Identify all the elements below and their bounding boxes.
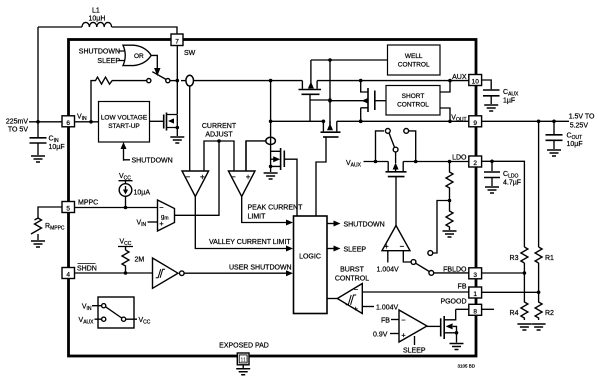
chip border bbox=[69, 40, 477, 357]
svg-text:+: + bbox=[159, 219, 164, 228]
svg-text:3: 3 bbox=[473, 272, 477, 279]
ground M0 bbox=[170, 137, 184, 143]
svg-text:3105 BD: 3105 BD bbox=[457, 364, 475, 369]
current sensor B bbox=[266, 121, 276, 166]
svg-text:10µA: 10µA bbox=[134, 190, 151, 197]
svg-text:MPPC: MPPC bbox=[78, 200, 98, 207]
svg-text:FB: FB bbox=[381, 318, 390, 325]
svg-text:6: 6 bbox=[66, 120, 70, 127]
svg-text:4: 4 bbox=[66, 272, 70, 279]
resistor R4 bbox=[510, 273, 528, 320]
node SHUTDOWN out bbox=[327, 221, 385, 229]
ground M3 bbox=[264, 173, 278, 179]
svg-text:10: 10 bbox=[472, 79, 480, 86]
capacitor CLDO bbox=[482, 160, 521, 187]
svg-text:10µF: 10µF bbox=[49, 144, 65, 151]
op-amp gm bbox=[158, 200, 175, 231]
svg-text:WELL: WELL bbox=[405, 53, 423, 60]
resistor R2 bbox=[535, 292, 554, 320]
wire C2 out PEAK CURRENT LIMIT bbox=[242, 197, 303, 226]
pin 6 VIN bbox=[62, 114, 87, 128]
svg-text:2M: 2M bbox=[135, 257, 145, 264]
wire PGOOD bbox=[456, 308, 469, 310]
svg-text:10µH: 10µH bbox=[89, 16, 106, 23]
comparator burst bbox=[335, 267, 369, 314]
resistor 2M pulldown bbox=[118, 239, 144, 275]
capacitor CIN bbox=[30, 122, 65, 155]
wire LDO to R3 bbox=[492, 161, 524, 247]
wire FB external bbox=[482, 291, 539, 293]
svg-text:USER SHUTDOWN: USER SHUTDOWN bbox=[229, 265, 292, 272]
transistor M1 sync PMOS bbox=[299, 60, 322, 121]
svg-text:PEAK CURRENT: PEAK CURRENT bbox=[248, 205, 304, 212]
svg-text:TO 5V: TO 5V bbox=[8, 127, 28, 134]
svg-text:EXPOSED PAD: EXPOSED PAD bbox=[219, 343, 269, 350]
wire FBLDO internal bbox=[434, 272, 469, 274]
svg-text:+: + bbox=[384, 242, 389, 251]
ground R4 bbox=[517, 324, 531, 330]
wire USER SHUTDOWN bbox=[184, 265, 293, 277]
svg-text:SHDN: SHDN bbox=[77, 266, 97, 273]
ground divider bbox=[443, 231, 457, 237]
svg-text:−: − bbox=[400, 242, 405, 251]
svg-text:225mV: 225mV bbox=[6, 119, 29, 126]
wire sense A down bbox=[189, 86, 191, 171]
block U5 SHORT CONTROL bbox=[386, 79, 452, 123]
svg-text:1.004V: 1.004V bbox=[377, 267, 400, 274]
block U3 LOW VOLTAGE START-UP bbox=[75, 102, 150, 143]
svg-text:7: 7 bbox=[175, 39, 179, 46]
svg-text:CONTROL: CONTROL bbox=[335, 276, 369, 283]
svg-text:+: + bbox=[246, 172, 251, 181]
svg-text:SLEEP: SLEEP bbox=[97, 58, 120, 65]
node 225mV input bbox=[6, 119, 62, 134]
node SHUTDOWN into startup bbox=[121, 142, 173, 165]
switch ldo fb select bbox=[403, 251, 433, 276]
wire M1 right to AUX bbox=[317, 80, 469, 82]
svg-text:PGOOD: PGOOD bbox=[440, 299, 466, 306]
wire pin 8 stub bbox=[482, 308, 494, 310]
wire VOUT to R1 bbox=[538, 121, 540, 247]
svg-text:VALLEY CURRENT LIMIT: VALLEY CURRENT LIMIT bbox=[209, 239, 291, 246]
svg-text:LOW VOLTAGE: LOW VOLTAGE bbox=[101, 115, 148, 122]
svg-text:BURST: BURST bbox=[340, 267, 364, 274]
capacitor COUT bbox=[546, 121, 583, 149]
svg-text:SLEEP: SLEEP bbox=[344, 247, 367, 254]
comparator power good bbox=[373, 310, 427, 355]
resistor R3 bbox=[510, 247, 528, 273]
resistor startup bypass bbox=[91, 77, 147, 122]
svg-text:LOGIC: LOGIC bbox=[299, 254, 321, 261]
svg-text:OR: OR bbox=[134, 53, 144, 60]
svg-text:−: − bbox=[231, 172, 236, 181]
svg-text:L1: L1 bbox=[92, 8, 100, 15]
wire SHDN to inverter bbox=[75, 272, 153, 274]
wire or-gate to switch arrow bbox=[151, 55, 160, 76]
node CURRENT ADJUST bbox=[202, 123, 237, 171]
svg-text:2: 2 bbox=[473, 160, 477, 167]
svg-text:LIMIT: LIMIT bbox=[248, 214, 267, 221]
ground EXPOSED PAD bbox=[236, 369, 250, 375]
svg-text:9: 9 bbox=[473, 120, 477, 127]
inductor L1 bbox=[82, 8, 112, 28]
wire MPPC to gm bbox=[75, 206, 158, 210]
or-gate U2 bbox=[79, 45, 151, 65]
svg-text:SHORT: SHORT bbox=[402, 93, 425, 100]
svg-text:CURRENT: CURRENT bbox=[202, 123, 237, 130]
svg-text:R3: R3 bbox=[510, 255, 519, 262]
svg-text:CONTROL: CONTROL bbox=[397, 102, 429, 109]
current sensor A bbox=[181, 75, 302, 86]
pin 9 VOUT bbox=[451, 115, 481, 128]
svg-text:R1: R1 bbox=[545, 255, 554, 262]
svg-text:START-UP: START-UP bbox=[108, 123, 140, 130]
wire SW vertical bbox=[176, 46, 178, 115]
node VIN gm input bbox=[137, 220, 158, 229]
svg-text:SHUTDOWN: SHUTDOWN bbox=[344, 222, 385, 229]
svg-text:+: + bbox=[401, 330, 406, 339]
svg-text:SLEEP: SLEEP bbox=[403, 348, 426, 355]
switch selector VIN VAUX VCC bbox=[79, 297, 151, 328]
svg-text:0.9V: 0.9V bbox=[373, 332, 388, 339]
wire sense B tap bbox=[246, 141, 266, 171]
wire C1 out VALLEY CURRENT LIMIT bbox=[195, 197, 293, 252]
transistor M0 startup NMOS bbox=[150, 113, 180, 137]
svg-text:CONTROL: CONTROL bbox=[398, 62, 430, 69]
pin 3 FBLDO bbox=[443, 267, 481, 280]
ground RMPPC bbox=[31, 241, 45, 247]
svg-text:−: − bbox=[401, 315, 406, 324]
svg-text:1µF: 1µF bbox=[503, 98, 515, 105]
comparator C2 peak bbox=[228, 141, 255, 197]
capacitor CAUX bbox=[482, 80, 519, 105]
resistor internal divider top bbox=[446, 162, 453, 203]
ground CAUX bbox=[484, 105, 498, 111]
op-amp A1 LDO error bbox=[382, 226, 410, 252]
node 1.004V ref burst bbox=[362, 305, 398, 312]
svg-text:ADJUST: ADJUST bbox=[205, 132, 233, 139]
node 1.004V ref A1 bbox=[377, 251, 400, 274]
svg-text:FB: FB bbox=[458, 284, 467, 291]
current source VCC 10uA bbox=[119, 173, 151, 208]
svg-text:SHUTDOWN: SHUTDOWN bbox=[132, 158, 173, 165]
pin 7 SW bbox=[171, 34, 196, 57]
svg-text:4.7µF: 4.7µF bbox=[503, 180, 521, 187]
wire gm out to adjust node bbox=[175, 141, 220, 215]
pin 10 AUX bbox=[452, 74, 482, 86]
resistor RMPPC bbox=[31, 207, 65, 240]
wire divider tap to switch bbox=[433, 201, 450, 254]
svg-text:1: 1 bbox=[473, 291, 477, 298]
svg-text:R4: R4 bbox=[510, 310, 519, 317]
pin 1 FB bbox=[458, 284, 482, 299]
wire FB net internal bbox=[362, 291, 469, 293]
svg-text:1.004V: 1.004V bbox=[376, 305, 399, 312]
wire LDO rail to pin 2 bbox=[403, 160, 469, 164]
resistor R1 bbox=[535, 247, 554, 292]
node VAUX ldo input bbox=[346, 160, 388, 169]
svg-text:SHUTDOWN: SHUTDOWN bbox=[79, 49, 120, 56]
block U7 LOGIC bbox=[294, 216, 328, 314]
svg-text:SW: SW bbox=[184, 50, 196, 57]
resistor internal divider bottom bbox=[446, 201, 453, 231]
transistor M6 PGOOD NMOS bbox=[427, 309, 458, 342]
pin 4 SHDN bbox=[62, 264, 97, 279]
svg-text:LDO: LDO bbox=[452, 155, 467, 162]
pin 2 LDO bbox=[452, 155, 482, 168]
svg-text:5: 5 bbox=[66, 206, 70, 213]
ground R2 bbox=[532, 324, 546, 330]
svg-text:R2: R2 bbox=[545, 310, 554, 317]
wire VOUT internal rail bbox=[269, 120, 469, 124]
node SW to M3 branch bbox=[269, 79, 273, 122]
svg-text:11: 11 bbox=[240, 357, 246, 363]
node SLEEP out bbox=[327, 246, 366, 254]
node VOUT output bbox=[482, 114, 595, 130]
comparator C1 valley bbox=[182, 171, 209, 197]
ground CLDO bbox=[485, 187, 499, 193]
wire FBLDO external bbox=[482, 272, 525, 274]
transistor M3 ground NMOS bbox=[269, 148, 297, 216]
pin 11 EXPOSED PAD bbox=[219, 343, 269, 369]
block U4 WELL CONTROL bbox=[311, 45, 440, 75]
svg-text:−: − bbox=[354, 285, 359, 294]
wire L1 right to SW bbox=[112, 27, 177, 34]
transistor M5 LDO pass NMOS bbox=[386, 162, 407, 226]
transistor M4 short FET bbox=[328, 79, 386, 123]
transistor M2 output NMOS bbox=[316, 121, 341, 216]
switch ldo source select bbox=[376, 129, 416, 164]
wire L1 left bbox=[38, 26, 82, 28]
ground COUT bbox=[547, 150, 561, 156]
svg-text:−: − bbox=[186, 172, 191, 181]
wire gate node vertical bbox=[310, 60, 332, 125]
ground M6 bbox=[450, 344, 464, 350]
switch SW startup bbox=[147, 72, 178, 83]
svg-text:8: 8 bbox=[473, 309, 477, 316]
wire input left vertical bbox=[37, 27, 39, 122]
inverter U6 bbox=[153, 258, 185, 288]
svg-text:+: + bbox=[200, 172, 205, 181]
svg-text:+: + bbox=[354, 304, 359, 313]
svg-text:−: − bbox=[159, 203, 164, 212]
svg-text:1.5V TO: 1.5V TO bbox=[569, 114, 595, 121]
pin 5 MPPC bbox=[62, 200, 98, 213]
ground CIN bbox=[31, 156, 45, 162]
svg-text:5.25V: 5.25V bbox=[570, 123, 589, 130]
pin 8 PGOOD bbox=[440, 299, 481, 316]
svg-text:10µF: 10µF bbox=[567, 141, 583, 148]
wire burst out to logic bbox=[327, 298, 337, 300]
